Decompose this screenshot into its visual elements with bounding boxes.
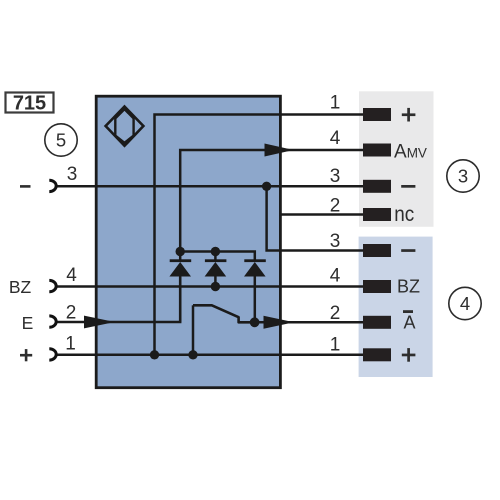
svg-text:1: 1 [330,334,341,355]
wire: BZ (pin4 left to right) [57,285,363,288]
label A-bar overline [403,310,413,313]
svg-text:4: 4 [330,266,341,287]
label - (right lower) [401,249,415,252]
wire: nc (pin2 right) [279,213,363,216]
terminal pad A-bar [363,316,391,329]
svg-text:2: 2 [66,302,77,323]
diode V2 (middle) [205,252,227,287]
label - (right top) [401,185,415,188]
svg-text:A: A [404,312,416,332]
svg-text:4: 4 [330,128,341,149]
terminal pad BZ [363,280,391,293]
svg-text:E: E [22,313,34,333]
wire: diode top rail [179,252,254,263]
junction dot (A-bar contact) [250,317,260,327]
circle 3 [447,160,479,192]
arrow AMV output [265,144,294,157]
svg-text:nc: nc [394,203,414,226]
wire: A-bar output (pin2 right) [255,321,363,324]
connector block 4 (light blue box) [359,237,433,377]
proximity sensor symbol (diamond) [106,107,144,146]
diode V3 (right) [244,259,266,276]
wire: + bus (pin1 left to lower right) [57,354,363,357]
terminal pad AMV [363,144,391,157]
svg-text:3: 3 [330,166,341,187]
svg-text:3: 3 [67,164,78,185]
svg-text:AMV: AMV [394,142,427,163]
svg-text:1: 1 [330,92,341,113]
connector block 3 (gray box) [359,91,434,227]
diode V1 (left) [169,252,191,323]
proximity sensor symbol (inner lens) [115,109,133,143]
sensor body (blue box) [96,96,280,388]
arrow A-bar output [264,316,295,329]
terminal pad + (lower) [363,348,391,361]
switch S1 [193,305,255,322]
connector socket (+, pin1) [49,349,56,360]
svg-text:2: 2 [330,303,341,324]
arrow E input [84,316,115,329]
svg-text:3: 3 [458,166,468,187]
circle 5 [45,124,77,156]
wire: right diode stem down to A-bar [254,277,257,323]
wire: AMV (pin4 right) [180,150,363,252]
wire: switch pivot branch to + bus [192,305,195,355]
svg-text:1: 1 [65,333,76,354]
terminal pad - (lower) [363,244,391,257]
terminal pad - (top) [363,180,391,193]
label + (right lower) [402,348,416,362]
junction dot (diode V1 top) [176,247,185,256]
svg-text:715: 715 [13,93,46,115]
junction dot (diode V2 bottom BZ) [211,282,220,291]
label 715 box [6,93,54,113]
terminal pad + (top) [363,108,391,121]
wire: E input (pin2 left) [57,277,180,322]
svg-text:4: 4 [460,293,470,314]
connector socket (BZ, pin4) [49,280,56,291]
label + (right top) [402,108,416,122]
junction dot (+ bus x154) [150,350,159,359]
label + (left) [20,349,32,361]
svg-text:5: 5 [56,130,66,151]
connector socket (minus, pin3) [49,180,56,191]
svg-text:BZ: BZ [9,277,32,297]
circle 4 [449,287,481,319]
terminal pad nc [363,208,391,221]
connector socket (E, pin2) [49,316,56,327]
svg-text:3: 3 [330,231,341,252]
label - (left) [20,185,31,188]
svg-text:BZ: BZ [397,277,420,297]
svg-text:4: 4 [66,265,77,286]
wire: minus branch down to lower connector (pin3) [267,186,363,250]
svg-text:2: 2 [330,195,341,216]
junction dot (minus line) [262,182,271,191]
wire: minus (pin3 left to right) [57,185,363,188]
junction dot (+ bus x193) [188,350,197,359]
junction dot (diode V2 top) [211,247,220,256]
wire: + top (pin1 right) [155,115,364,355]
